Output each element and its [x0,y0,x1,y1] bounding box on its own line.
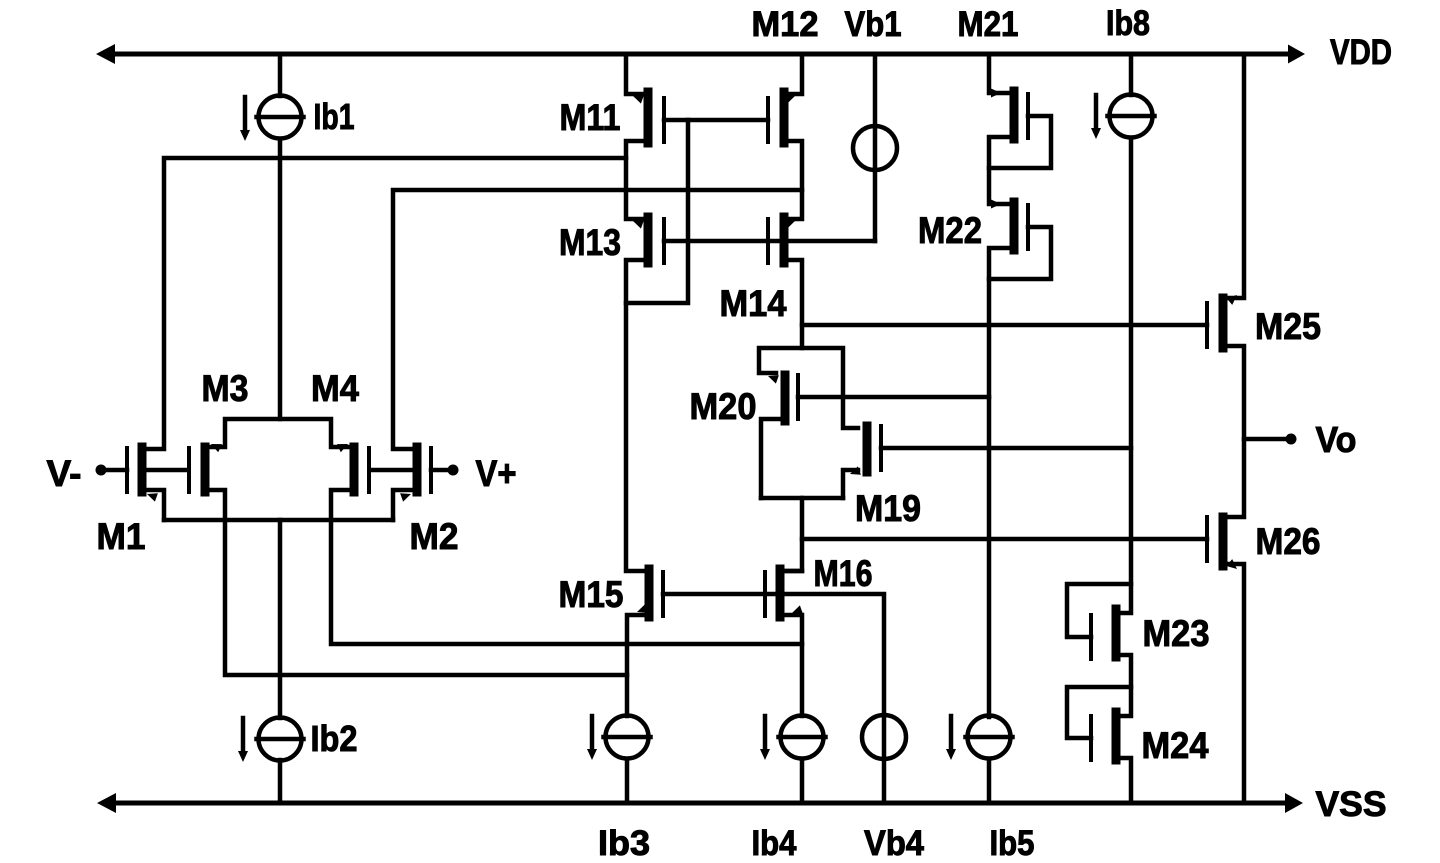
svg-text:M26: M26 [1256,521,1321,562]
svg-text:M15: M15 [559,574,624,615]
svg-text:M14: M14 [720,283,787,324]
svg-text:Vb4: Vb4 [864,824,924,863]
svg-text:Ib1: Ib1 [314,96,355,137]
svg-text:Ib8: Ib8 [1106,4,1150,43]
svg-text:M13: M13 [559,222,621,263]
svg-text:V+: V+ [476,453,517,494]
svg-text:Vo: Vo [1316,419,1357,460]
svg-text:Vb1: Vb1 [845,5,902,44]
svg-text:M3: M3 [202,368,249,409]
svg-text:M2: M2 [410,516,459,557]
svg-text:M4: M4 [311,368,359,409]
svg-text:M19: M19 [855,488,921,529]
svg-text:M21: M21 [958,5,1019,44]
svg-text:Ib4: Ib4 [752,824,797,863]
svg-text:M24: M24 [1142,725,1209,766]
svg-text:M20: M20 [690,386,757,427]
svg-text:Ib2: Ib2 [311,718,358,759]
svg-text:Ib5: Ib5 [990,824,1035,863]
svg-text:M1: M1 [97,516,146,557]
svg-text:M25: M25 [1255,306,1321,347]
svg-text:M16: M16 [814,553,873,594]
svg-text:VDD: VDD [1330,33,1392,72]
svg-text:Ib3: Ib3 [598,824,650,863]
svg-text:VSS: VSS [1316,785,1387,824]
svg-text:M22: M22 [918,210,982,251]
svg-text:V-: V- [47,453,82,494]
svg-text:M11: M11 [560,97,621,138]
svg-text:M23: M23 [1143,613,1210,654]
svg-text:M12: M12 [752,5,819,44]
